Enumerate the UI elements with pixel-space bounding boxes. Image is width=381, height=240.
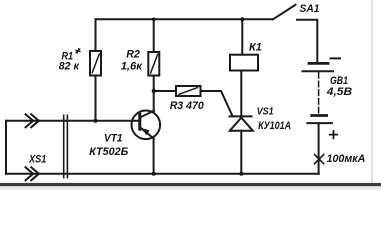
svg-text:4,5В: 4,5В xyxy=(326,86,353,98)
svg-text:100мкА: 100мкА xyxy=(327,153,366,165)
svg-text:XS1: XS1 xyxy=(28,154,46,166)
svg-text:КУ101А: КУ101А xyxy=(258,120,291,132)
svg-text:R2: R2 xyxy=(126,49,140,61)
svg-text:R3 470: R3 470 xyxy=(170,100,205,112)
svg-text:SA1: SA1 xyxy=(300,3,320,15)
svg-text:82 к: 82 к xyxy=(59,61,80,73)
svg-text:1,6к: 1,6к xyxy=(121,60,144,72)
svg-text:КТ502Б: КТ502Б xyxy=(89,146,128,158)
svg-text:VT1: VT1 xyxy=(104,133,123,145)
svg-text:VS1: VS1 xyxy=(257,107,274,118)
svg-text:К1: К1 xyxy=(249,42,262,54)
